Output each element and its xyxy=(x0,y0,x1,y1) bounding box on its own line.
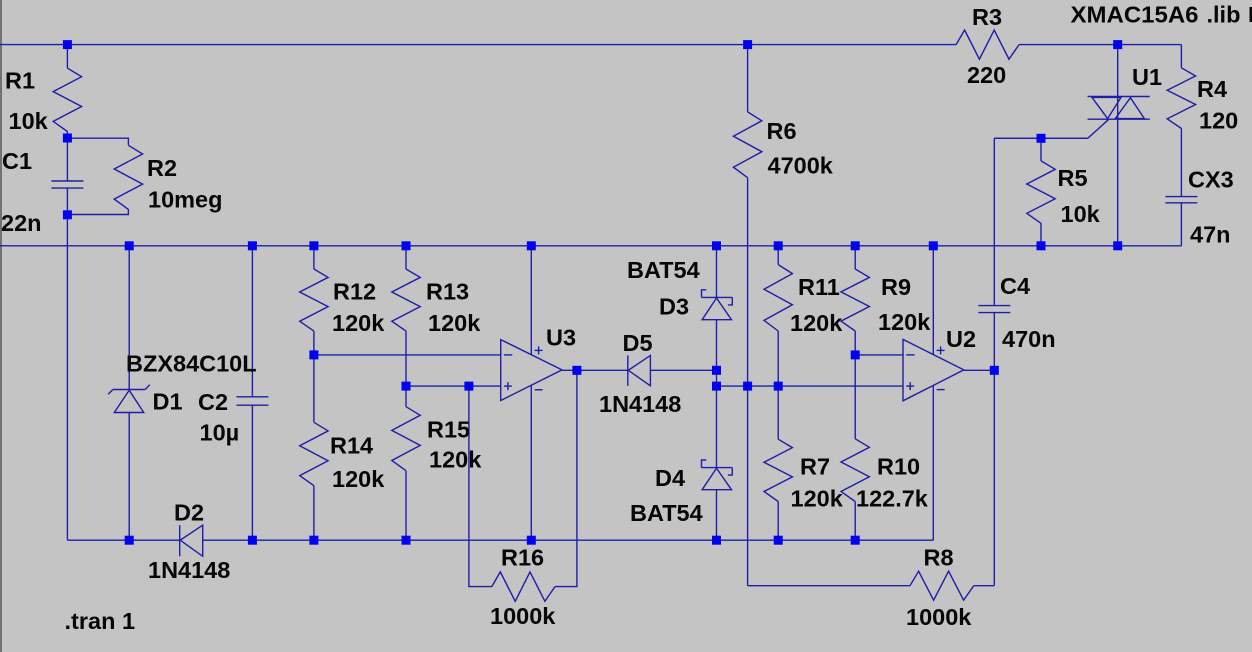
wire xyxy=(993,313,995,586)
wire CX3 bottom lead xyxy=(1180,203,1182,246)
wire D3 upper lead xyxy=(716,246,718,298)
svg-text:1000k: 1000k xyxy=(490,603,556,629)
resistor R11 xyxy=(764,265,792,331)
wire R12 leads xyxy=(313,246,315,269)
junction D5 / clamp node xyxy=(712,366,721,375)
wire bottom rail left of D2 xyxy=(67,539,179,541)
resistor R9 xyxy=(841,269,869,331)
svg-text:.tran 1: .tran 1 xyxy=(65,608,136,634)
resistor R5 xyxy=(1027,161,1055,223)
svg-text:R10: R10 xyxy=(877,454,920,480)
wire D1 column lower lead xyxy=(128,413,130,541)
junction top rail / triac xyxy=(1113,40,1122,49)
junction bus / R5 xyxy=(1037,241,1046,250)
wire R15 leads xyxy=(405,386,407,407)
svg-text:10meg: 10meg xyxy=(148,187,222,213)
wire feedback left vertical and R16 leads xyxy=(469,386,492,586)
svg-text:R1: R1 xyxy=(5,68,35,94)
svg-text:R5: R5 xyxy=(1058,165,1088,191)
wire U3 V+ supply column xyxy=(530,246,532,355)
junction U3 plus node / feedback xyxy=(464,382,473,391)
junction bus / triac xyxy=(1113,241,1122,250)
wire R16 right lead up to U3 output xyxy=(555,370,577,586)
junction bus / R11 xyxy=(774,241,783,250)
svg-text:47n: 47n xyxy=(1190,222,1231,248)
svg-text:10k: 10k xyxy=(9,108,49,134)
svg-text:D5: D5 xyxy=(623,330,653,356)
wire D1 column upper lead xyxy=(128,246,130,390)
svg-text:120k: 120k xyxy=(429,447,482,473)
wire C2 column upper lead xyxy=(251,246,253,397)
junction U3 plus node / R13 xyxy=(402,382,411,391)
svg-text:D1: D1 xyxy=(153,389,183,415)
svg-text:R16: R16 xyxy=(501,545,544,571)
svg-text:R7: R7 xyxy=(800,454,830,480)
junction rail / R14 xyxy=(309,536,318,545)
wire R2 bottom stub xyxy=(67,209,128,214)
junction bus / D1 xyxy=(125,241,134,250)
resistor R2 xyxy=(114,145,142,209)
svg-text:D3: D3 xyxy=(659,294,689,320)
junction U2 plus node / R6 xyxy=(743,382,752,391)
svg-text:120k: 120k xyxy=(332,310,385,336)
junction top rail / R6 xyxy=(743,40,752,49)
capacitor C4 xyxy=(978,305,1010,307)
wire R11 leads xyxy=(777,246,779,265)
svg-text:XMAC15A6: XMAC15A6 xyxy=(1071,2,1199,28)
svg-text:R14: R14 xyxy=(330,433,373,459)
wire U3 plus input row xyxy=(406,385,501,387)
junction bus / C2 xyxy=(248,241,257,250)
junction U2 output xyxy=(990,366,999,375)
wire U3 output to D5 xyxy=(562,369,628,371)
resistor R7 xyxy=(764,439,792,501)
junction R1-C1-R2 node xyxy=(63,134,72,143)
svg-text:10µ: 10µ xyxy=(200,420,240,446)
svg-text:1N4148: 1N4148 xyxy=(599,391,681,417)
junction rail / C2 xyxy=(248,536,257,545)
triac U1 xyxy=(994,97,1150,139)
wire R7 leads xyxy=(777,386,779,439)
svg-text:4700k: 4700k xyxy=(768,153,834,179)
wire R6 column top lead xyxy=(747,45,749,112)
svg-text:R11: R11 xyxy=(798,274,840,300)
svg-text:120k: 120k xyxy=(790,310,843,336)
svg-text:220: 220 xyxy=(967,62,1006,88)
wire R4 bottom lead to CX3 xyxy=(1180,129,1182,197)
svg-text:.lib: .lib xyxy=(1207,2,1241,28)
resistor R4 xyxy=(1167,68,1195,129)
wire U3 minus input row xyxy=(314,354,501,356)
wire R13 leads xyxy=(405,246,407,269)
diode D5 xyxy=(628,355,651,385)
diode D2 xyxy=(180,525,203,556)
svg-text:R15: R15 xyxy=(427,417,470,443)
wire top rail left segment xyxy=(0,44,956,46)
svg-text:10k: 10k xyxy=(1061,201,1101,227)
svg-text:R6: R6 xyxy=(767,118,797,144)
wire R4 top lead xyxy=(1180,45,1182,68)
junction gate node / R5 xyxy=(1037,134,1046,143)
junction U3 output xyxy=(572,366,581,375)
wire triac main column xyxy=(1117,45,1119,246)
resistor R3 xyxy=(956,30,1019,59)
wire R9 leads xyxy=(854,246,856,269)
junction top rail / R1 xyxy=(63,40,72,49)
wire R14 leads xyxy=(313,355,315,422)
window border left edge xyxy=(0,0,2,652)
svg-text:1000k: 1000k xyxy=(906,604,972,630)
svg-text:R4: R4 xyxy=(1197,76,1227,102)
wire left column C1 leads and lower drop xyxy=(66,132,68,182)
svg-text:R12: R12 xyxy=(333,279,376,305)
wire xyxy=(66,188,68,540)
resistor R15 xyxy=(392,407,420,471)
svg-text:C1: C1 xyxy=(2,148,32,174)
resistor R12 xyxy=(300,269,328,331)
resistor R6 xyxy=(733,112,761,178)
resistor R13 xyxy=(392,269,420,331)
wire R10 leads xyxy=(854,355,856,439)
resistor R8 xyxy=(910,571,974,600)
junction bus / R13 xyxy=(402,241,411,250)
svg-text:C4: C4 xyxy=(1000,273,1030,299)
svg-text:U2: U2 xyxy=(946,326,976,352)
wire C2 column lower lead xyxy=(251,405,253,540)
svg-text:120k: 120k xyxy=(791,486,844,512)
junction rail / R10 xyxy=(851,536,860,545)
svg-text:D4: D4 xyxy=(655,465,685,491)
wire D4 lower lead xyxy=(716,490,718,541)
svg-text:R8: R8 xyxy=(924,545,954,571)
svg-text:R3: R3 xyxy=(972,4,1002,30)
wire R8 row left segment xyxy=(748,585,910,587)
svg-text:R13: R13 xyxy=(426,279,469,305)
resistor R14 xyxy=(300,422,328,485)
schottky diode D3 xyxy=(702,290,733,320)
clipped directive text at right edge xyxy=(1250,7,1252,22)
wire D5 to node column xyxy=(650,369,716,371)
svg-text:22n: 22n xyxy=(1,210,42,236)
wire top rail right segment (R3 to R4 corner) xyxy=(1019,44,1181,46)
junction U2 plus node / R11 xyxy=(774,382,783,391)
svg-text:120: 120 xyxy=(1199,108,1238,134)
svg-text:120k: 120k xyxy=(878,309,931,335)
wire output column x=994 (gate row down through C4 to R8) xyxy=(993,138,995,305)
svg-text:U1: U1 xyxy=(1132,64,1162,90)
junction U2 minus node xyxy=(851,350,860,359)
wire U2 output to junction xyxy=(964,369,995,371)
svg-text:120k: 120k xyxy=(428,310,481,336)
wire gate row horizontal xyxy=(994,137,1088,139)
junction rail / U3 supply xyxy=(527,536,536,545)
svg-text:C2: C2 xyxy=(198,389,228,415)
op-amp U2 xyxy=(903,339,964,400)
svg-text:CX3: CX3 xyxy=(1188,167,1234,193)
wire U2 V+ supply column xyxy=(932,246,934,355)
svg-text:122.7k: 122.7k xyxy=(856,486,929,512)
junction bus / U3 supply xyxy=(527,241,536,250)
wire R8 right lead xyxy=(974,585,995,587)
wire D4 upper lead xyxy=(716,386,718,468)
resistor R16 xyxy=(492,572,555,601)
svg-text:BZX84C10L: BZX84C10L xyxy=(126,351,257,377)
schottky diode D4 xyxy=(702,460,733,490)
wire U2 minus input row xyxy=(855,354,903,356)
junction bus / R9 xyxy=(851,241,860,250)
junction bus / D3 xyxy=(712,241,721,250)
wire R5 leads xyxy=(1040,138,1042,161)
junction C1-R2 bottom node xyxy=(63,210,72,219)
junction rail / R7 xyxy=(774,536,783,545)
resistor R10 xyxy=(841,439,869,502)
capacitor C2 xyxy=(236,396,268,398)
junction bus / R12 xyxy=(309,241,318,250)
wire bottom rail right of D2 xyxy=(203,539,934,541)
svg-text:120k: 120k xyxy=(332,466,385,492)
svg-text:BAT54: BAT54 xyxy=(627,257,700,283)
junction rail / D4 xyxy=(712,536,721,545)
wire U2 plus input row xyxy=(717,385,904,387)
wire U3 V- supply column xyxy=(530,386,532,541)
junction rail / D1 xyxy=(125,536,134,545)
svg-text:R2: R2 xyxy=(147,155,177,181)
wire R6 column long drop to plus node and R8 xyxy=(747,178,749,586)
svg-text:BAT54: BAT54 xyxy=(630,500,703,526)
capacitor C1 xyxy=(51,180,83,182)
junction bus / U2 supply xyxy=(929,241,938,250)
svg-text:1N4148: 1N4148 xyxy=(148,557,230,583)
svg-text:470n: 470n xyxy=(1002,326,1056,352)
capacitor CX3 xyxy=(1165,196,1197,198)
zener diode D1 xyxy=(108,385,150,413)
resistor R1 xyxy=(53,68,81,131)
svg-text:R9: R9 xyxy=(881,274,911,300)
wire left column x=67 (top rail to R1) xyxy=(66,45,68,69)
junction U2 plus node / D3-D4 xyxy=(712,382,721,391)
wire U2 V- supply column xyxy=(932,386,934,541)
wire R2 top stub xyxy=(67,138,128,145)
junction rail / R15 xyxy=(402,536,411,545)
wire D3 lower lead to node xyxy=(716,320,718,386)
junction U3 minus node xyxy=(309,350,318,359)
svg-text:U3: U3 xyxy=(546,325,576,351)
svg-text:D2: D2 xyxy=(174,500,204,526)
wire main bus horizontal xyxy=(0,245,1181,247)
op-amp U3 xyxy=(501,340,562,401)
